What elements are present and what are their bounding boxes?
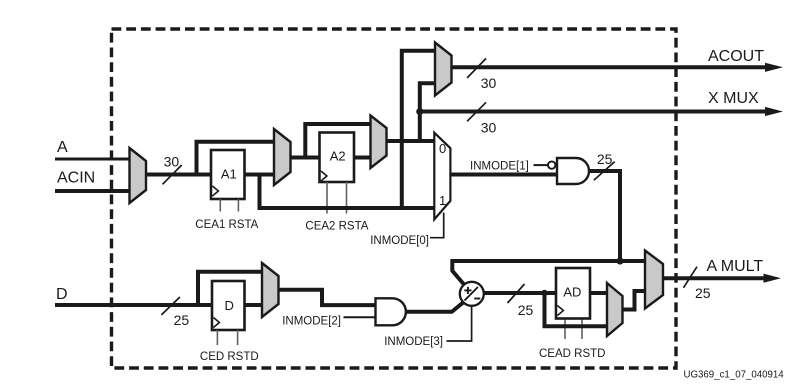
pin CE stub AD xyxy=(564,319,566,340)
pin CE stub A1 xyxy=(219,199,221,212)
label INMODE[0] with pointer xyxy=(370,213,444,248)
wire INMODE[0] mux output to AND gate xyxy=(450,173,558,177)
bus slash 25 adder output xyxy=(508,284,525,303)
value label 25 adder output xyxy=(518,302,534,318)
svg-text:30: 30 xyxy=(481,75,497,91)
wire A2 output to mux3 xyxy=(354,156,373,160)
svg-text:A: A xyxy=(57,139,68,156)
node X MUX label xyxy=(708,90,759,107)
label INMODE[1] xyxy=(470,161,529,173)
svg-text:INMODE[0]: INMODE[0] xyxy=(370,235,429,247)
wire mux3 output to "0" input of INMODE[0] mux xyxy=(386,139,436,143)
mux A/ACIN select xyxy=(130,148,147,203)
pin RST stub A2 xyxy=(346,182,348,214)
wire D input xyxy=(55,303,214,307)
bus slash 30 xyxy=(163,165,182,184)
pin CE stub A2 xyxy=(326,182,328,214)
node A MULT label xyxy=(707,258,764,275)
wire adder output to AD xyxy=(484,291,558,295)
label CED RSTD xyxy=(200,351,259,363)
bus slash D 25 xyxy=(161,297,180,315)
svg-text:CEA1 RSTA: CEA1 RSTA xyxy=(195,219,258,231)
mux A MULT select xyxy=(645,251,663,309)
svg-text:0: 0 xyxy=(439,141,446,156)
svg-text:25: 25 xyxy=(597,151,613,167)
pin RST stub AD xyxy=(581,319,583,340)
svg-text:A1: A1 xyxy=(221,167,237,182)
bus slash A MULT 25 xyxy=(684,267,698,288)
label INMODE[2] xyxy=(282,316,341,328)
label CEA1 RSTA xyxy=(195,219,258,231)
clock pin D xyxy=(213,318,219,328)
svg-text:25: 25 xyxy=(174,312,190,328)
svg-text:INMODE[1]: INMODE[1] xyxy=(470,161,529,173)
mux AD bypass select xyxy=(607,283,623,336)
wire branch up to X MUX line and ACOUT mux bottom input xyxy=(420,83,437,141)
wire mux2 output to A2 xyxy=(290,156,321,160)
pin RST stub A1 xyxy=(237,199,239,212)
value label 30 bus width xyxy=(164,154,180,170)
svg-text:AD: AD xyxy=(563,285,581,300)
clock pin AD xyxy=(557,306,563,316)
wire A2 bypass (up and over A2 to mux3 top input) xyxy=(305,124,372,159)
figure reference label xyxy=(684,369,785,380)
pin CE stub D xyxy=(216,330,218,345)
label CEA2 RSTA xyxy=(305,221,368,233)
svg-text:D: D xyxy=(56,286,68,303)
wire A input xyxy=(55,158,132,161)
node A input label xyxy=(57,139,68,156)
mux ACOUT select xyxy=(435,43,452,96)
register A2 xyxy=(320,133,355,183)
bus slash 25 AND output xyxy=(594,162,615,181)
junction AD bypass branch xyxy=(541,290,547,296)
svg-text:CEAD RSTD: CEAD RSTD xyxy=(539,348,605,360)
mux A2 input select xyxy=(274,129,291,185)
svg-text:ACIN: ACIN xyxy=(57,169,95,186)
value label 25 D input xyxy=(174,312,190,328)
svg-text:INMODE[2]: INMODE[2] xyxy=(282,316,341,328)
value label 30 ACOUT xyxy=(481,75,497,91)
dashed boundary box xyxy=(112,29,677,368)
value label 25 AND output xyxy=(597,151,613,167)
svg-text:D: D xyxy=(225,298,234,313)
inverter bubble INMODE[1] xyxy=(548,161,555,168)
value label 30 X MUX xyxy=(481,119,497,135)
wire A1 path up to ACOUT mux top input xyxy=(402,51,437,208)
mux INMODE[0] select (0/1) xyxy=(434,133,450,220)
and-gate U1 (A path gating) xyxy=(557,158,589,184)
bus slash X MUX 30 xyxy=(467,102,486,121)
svg-text:A MULT: A MULT xyxy=(707,258,764,275)
wire AND output down to A-path node xyxy=(588,171,620,261)
wire INMODE[1] to bubble xyxy=(534,164,549,166)
svg-text:CEA2 RSTA: CEA2 RSTA xyxy=(305,221,368,233)
node D input label xyxy=(56,286,68,303)
wire D bypass (up and over D to muxD top input) xyxy=(198,272,264,306)
junction X MUX branch xyxy=(416,108,423,115)
mux D bypass select xyxy=(262,263,279,317)
svg-text:X MUX: X MUX xyxy=(708,90,759,107)
wire muxD output jog to AND2 xyxy=(278,290,376,305)
label INMODE[3] with pointer xyxy=(384,306,471,348)
and-gate U2 (D path gating) xyxy=(376,298,406,325)
svg-text:25: 25 xyxy=(695,285,711,301)
junction A-path node xyxy=(616,257,623,264)
svg-text:25: 25 xyxy=(518,302,534,318)
wire A1 output down to "1" input of INMODE[0] mux xyxy=(260,173,437,208)
clock pin A2 xyxy=(321,171,327,181)
svg-text:30: 30 xyxy=(481,119,497,135)
wire mux5 output jog to final mux xyxy=(622,291,646,310)
svg-text:INMODE[3]: INMODE[3] xyxy=(384,336,443,348)
wire A-path horizontal into adder and final mux xyxy=(452,261,646,285)
wire ACOUT output xyxy=(451,63,784,72)
wire A1 output to mux2 xyxy=(244,173,276,177)
wire X MUX output xyxy=(420,107,783,116)
wire mux1 output to A1 xyxy=(145,173,213,177)
register A1 xyxy=(211,150,245,199)
wire A MULT output xyxy=(662,274,781,283)
svg-text:1: 1 xyxy=(439,193,446,208)
node ACOUT label xyxy=(708,48,764,65)
mux A2/bypass select xyxy=(371,116,387,169)
value label 25 A MULT xyxy=(695,285,711,301)
svg-text:30: 30 xyxy=(164,154,180,170)
register AD xyxy=(556,268,590,319)
wire AD bypass (under AD to mux5 bottom input) xyxy=(545,293,609,326)
bus slash ACOUT 30 xyxy=(467,58,486,78)
clock pin A1 xyxy=(212,186,218,196)
label CEAD RSTD xyxy=(539,348,605,360)
register D xyxy=(212,281,245,330)
adder (pre-adder +/-) xyxy=(460,282,484,306)
node ACIN input label xyxy=(57,169,95,186)
wire AND2 output to adder xyxy=(406,302,464,312)
svg-text:ACOUT: ACOUT xyxy=(708,48,764,65)
wire INMODE[2] to AND2 xyxy=(344,316,376,318)
wire A1 bypass (up and over A1 to mux2 top input) xyxy=(197,142,277,176)
wire ACIN input xyxy=(55,189,132,193)
wire AD output to mux5 xyxy=(590,291,609,295)
svg-text:UG369_c1_07_040914: UG369_c1_07_040914 xyxy=(684,369,785,380)
wire D output to muxD xyxy=(244,303,264,307)
svg-text:A2: A2 xyxy=(330,149,346,164)
pin RST stub D xyxy=(237,330,239,345)
svg-text:CED RSTD: CED RSTD xyxy=(200,351,259,363)
